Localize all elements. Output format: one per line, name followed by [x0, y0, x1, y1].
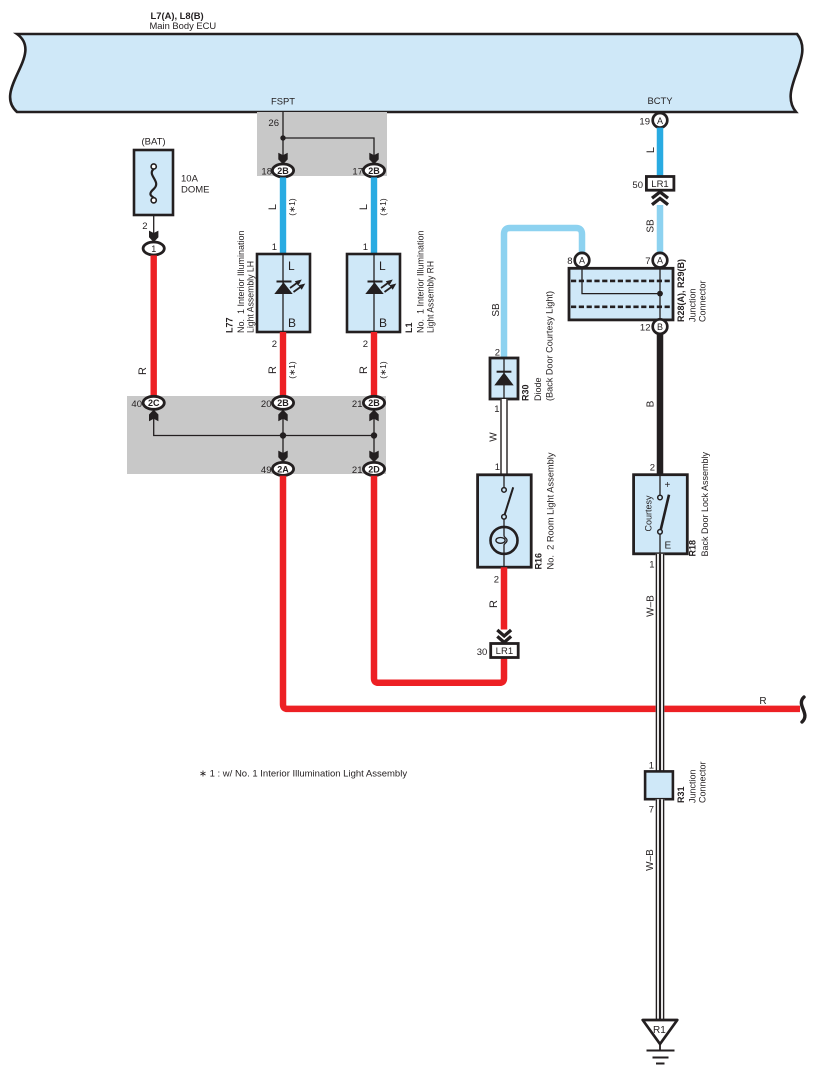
svg-text:BCTY: BCTY: [647, 95, 673, 106]
svg-text:R16: R16: [534, 553, 544, 570]
svg-text:B: B: [657, 322, 663, 332]
wire R red from fuse: [150, 255, 156, 396]
pin circle A (junction 8): [575, 253, 590, 268]
svg-text:(∗1): (∗1): [287, 198, 297, 216]
svg-text:No. 2 Room Light Assembly: No. 2 Room Light Assembly: [546, 452, 556, 570]
svg-text:Connector: Connector: [697, 761, 707, 803]
svg-text:R28(A), R29(B): R28(A), R29(B): [676, 259, 686, 322]
wire SB light blue to junction connector: [657, 205, 664, 253]
svg-text:R: R: [137, 367, 149, 375]
arrow up from 2B(21): [369, 410, 378, 422]
svg-text:7: 7: [645, 256, 650, 267]
svg-text:2: 2: [363, 339, 368, 350]
wire R red from 2D to LR1: [374, 476, 504, 683]
wire B black from junction 12 to R18: [657, 334, 664, 475]
wire L blue BCTY: [657, 128, 664, 177]
wire FSPT pin 26 vertical: [282, 112, 284, 155]
svg-text:2D: 2D: [368, 464, 380, 474]
svg-text:DOME: DOME: [181, 185, 210, 196]
splice LR1 pin 50: [646, 177, 674, 191]
arrow up from 2C: [149, 410, 158, 422]
svg-text:17: 17: [352, 167, 363, 178]
splice LR1 pin 30: [491, 644, 519, 658]
svg-text:+: +: [665, 480, 671, 491]
svg-text:No. 1 Interior Illumination: No. 1 Interior Illumination: [236, 230, 246, 333]
wire from 2C to bus: [154, 417, 374, 436]
svg-text:L77: L77: [225, 317, 235, 333]
svg-text:A: A: [657, 116, 663, 126]
svg-text:10A: 10A: [181, 174, 199, 185]
svg-text:(∗1): (∗1): [378, 361, 388, 379]
svg-text:R: R: [488, 600, 500, 608]
wire fuse to connector 1: [153, 215, 155, 235]
ECU band L7(A),L8(B) Main Body ECU: [10, 34, 802, 112]
svg-text:1: 1: [151, 244, 156, 254]
wire W white to R16: [500, 399, 507, 475]
connector oval 2B pin 21: [363, 396, 384, 409]
svg-text:1: 1: [494, 404, 499, 415]
LED symbol L7: [277, 281, 292, 283]
svg-text:2B: 2B: [277, 166, 289, 176]
svg-text:Main Body ECU: Main Body ECU: [150, 20, 217, 31]
fuse 10A DOME: [134, 150, 173, 215]
svg-text:Courtesy: Courtesy: [644, 495, 654, 532]
junction connector R31: [645, 771, 673, 799]
svg-text:L: L: [379, 259, 386, 273]
svg-text:(Back Door Courtesy Light): (Back Door Courtesy Light): [544, 291, 554, 401]
chevrons down into LR1: [497, 630, 511, 642]
wire SB light blue from junction pin 8 to R30: [504, 228, 582, 358]
svg-text:E: E: [665, 541, 672, 552]
chevrons up (no-connect crossover): [652, 192, 668, 205]
wire W-B from R18 to R31: [656, 554, 665, 772]
connector oval 2D pin 21: [363, 462, 384, 475]
svg-text:No. 1 Interior Illumination: No. 1 Interior Illumination: [416, 230, 426, 333]
svg-text:2: 2: [272, 339, 277, 350]
svg-text:(BAT): (BAT): [141, 137, 165, 148]
connector oval 2B pin 18: [272, 164, 293, 177]
room light R16 No. 2 Room Light Assembly: [478, 475, 532, 567]
wire branch to pin 17: [283, 138, 374, 155]
svg-text:R30: R30: [521, 384, 531, 401]
pin circle A (junction 7): [653, 253, 668, 268]
svg-text:∗ 1 : w/ No. 1 Interior Illumi: ∗ 1 : w/ No. 1 Interior Illumination Lig…: [199, 769, 407, 780]
wire 2B(20) to 2A: [282, 417, 284, 455]
node dot at 2A column: [280, 432, 286, 438]
wire R red from L1: [371, 332, 377, 396]
svg-text:49: 49: [261, 465, 272, 476]
svg-text:1: 1: [649, 761, 654, 772]
svg-text:40: 40: [131, 399, 142, 410]
lamp bulb symbol: [491, 527, 518, 554]
svg-text:Light Assembly RH: Light Assembly RH: [425, 261, 435, 333]
svg-text:L: L: [267, 204, 279, 210]
svg-text:R: R: [759, 696, 766, 707]
svg-text:2: 2: [142, 221, 147, 232]
svg-text:8: 8: [567, 256, 572, 267]
arrow into 2D: [369, 451, 378, 463]
svg-text:1: 1: [495, 462, 500, 473]
arrow into connector 2B (17): [369, 153, 378, 165]
connector oval 2B pin 20: [272, 396, 293, 409]
svg-text:21: 21: [352, 399, 363, 410]
svg-text:2B: 2B: [368, 398, 380, 408]
wire R red from 2A long run to right: [283, 476, 800, 709]
svg-text:A: A: [657, 256, 663, 266]
svg-text:L: L: [288, 259, 295, 273]
wire L blue to L7: [280, 177, 286, 254]
arrow into connector 2B (18): [278, 153, 287, 165]
wire R red from L7: [280, 332, 286, 396]
svg-text:26: 26: [268, 118, 279, 129]
lamp L1 No.1 Interior Illumination Light Assembly RH: [347, 254, 400, 332]
svg-text:Back Door Lock Assembly: Back Door Lock Assembly: [700, 451, 710, 556]
svg-text:1: 1: [272, 242, 277, 253]
svg-text:A: A: [579, 256, 585, 266]
connector oval 1: [143, 242, 164, 255]
svg-text:FSPT: FSPT: [271, 96, 295, 107]
svg-text:L: L: [645, 147, 657, 153]
svg-text:B: B: [379, 316, 387, 330]
svg-text:W: W: [489, 432, 500, 442]
svg-text:50: 50: [632, 180, 643, 191]
svg-text:2A: 2A: [277, 464, 289, 474]
connector oval 2B pin 17: [363, 164, 384, 177]
svg-text:2: 2: [650, 463, 655, 474]
arrow into connector 1: [149, 231, 158, 243]
wire L blue to L1: [371, 177, 377, 254]
svg-text:R31: R31: [676, 786, 686, 803]
svg-text:1: 1: [649, 560, 654, 571]
svg-text:W–B: W–B: [645, 849, 656, 871]
svg-text:2B: 2B: [277, 398, 289, 408]
harness shading box 2: [127, 396, 386, 474]
svg-text:LR1: LR1: [651, 179, 668, 190]
svg-text:SB: SB: [491, 303, 502, 317]
node junction dot: [280, 135, 285, 140]
svg-text:R: R: [267, 366, 279, 374]
arrow into 2A: [278, 451, 287, 463]
svg-text:(∗1): (∗1): [378, 198, 388, 216]
junction connector R28(A),R29(B): [569, 268, 673, 320]
svg-text:Light Assembly LH: Light Assembly LH: [246, 261, 256, 333]
wire W-B from R31 to ground: [656, 799, 665, 1020]
svg-text:L1: L1: [404, 322, 414, 333]
svg-text:12: 12: [640, 323, 651, 334]
svg-text:B: B: [646, 400, 657, 407]
arrow up from 2B(20): [278, 410, 287, 422]
pin circle A (BCTY 19): [653, 113, 668, 128]
svg-text:R18: R18: [688, 540, 698, 557]
svg-text:Junction: Junction: [688, 288, 698, 322]
wire R red from R16 to LR1: [501, 567, 508, 629]
svg-text:SB: SB: [646, 219, 657, 233]
diode R30 Back Door Courtesy Light: [490, 358, 518, 399]
svg-text:1: 1: [363, 242, 368, 253]
wire break symbol: [801, 697, 805, 722]
svg-text:Connector: Connector: [698, 280, 708, 322]
svg-text:R1: R1: [653, 1025, 666, 1036]
pin circle B (junction 12): [653, 319, 668, 334]
svg-text:20: 20: [261, 399, 272, 410]
ground R1: [643, 1020, 678, 1064]
back door lock R18 Back Door Lock Assembly: [634, 475, 688, 554]
svg-text:21: 21: [352, 465, 363, 476]
svg-text:(∗1): (∗1): [287, 361, 297, 379]
svg-text:R: R: [358, 366, 370, 374]
connector oval 2A pin 49: [272, 462, 293, 475]
svg-text:2: 2: [494, 575, 499, 586]
svg-text:30: 30: [477, 647, 488, 658]
harness shading box 1: [257, 112, 387, 176]
svg-text:7: 7: [649, 805, 654, 816]
connector oval 2C pin 40: [143, 396, 164, 409]
svg-text:Junction: Junction: [687, 769, 697, 803]
svg-text:Diode: Diode: [533, 377, 543, 401]
lamp L7 No.1 Interior Illumination Light Assembly LH: [257, 254, 310, 332]
svg-text:LR1: LR1: [496, 646, 513, 657]
svg-text:2C: 2C: [148, 398, 160, 408]
svg-text:B: B: [288, 316, 296, 330]
svg-text:2B: 2B: [368, 166, 380, 176]
LED symbol L1: [368, 281, 383, 283]
node dot at 2D column: [371, 432, 377, 438]
svg-text:L: L: [358, 204, 370, 210]
svg-text:W–B: W–B: [646, 595, 657, 617]
wire 2B(21) to 2D: [373, 417, 375, 455]
svg-text:18: 18: [261, 167, 272, 178]
svg-text:19: 19: [639, 116, 650, 127]
